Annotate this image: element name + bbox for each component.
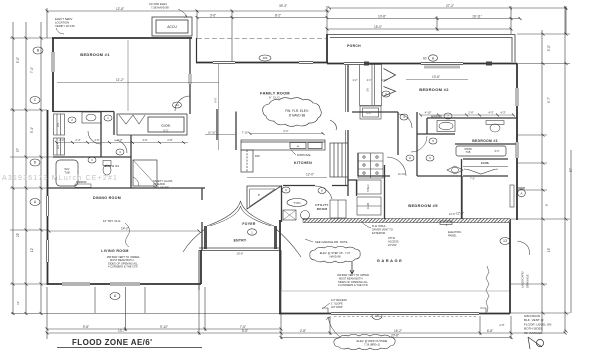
door arc bedroom2 bbox=[398, 114, 412, 128]
svg-text:A: A bbox=[520, 191, 522, 195]
svg-text:3'-0": 3'-0" bbox=[142, 138, 147, 142]
svg-text:39'-3": 39'-3" bbox=[279, 4, 287, 8]
dimension line right 3 bbox=[570, 150, 572, 313]
svg-text:L.C.: L.C. bbox=[367, 111, 372, 115]
corner pantry triangle bbox=[247, 186, 281, 209]
svg-text:4'-3": 4'-3" bbox=[500, 111, 505, 115]
svg-text:LANDSCAPE/: LANDSCAPE/ bbox=[521, 271, 525, 288]
dimension extension lines bottom bbox=[47, 250, 511, 339]
garage door dashed track bbox=[334, 316, 477, 318]
bath2 dim row bbox=[425, 111, 506, 115]
dimension line top 2 right bbox=[327, 18, 520, 20]
svg-text:15': 15' bbox=[547, 248, 551, 253]
svg-text:BEDROOM #5: BEDROOM #5 bbox=[408, 203, 438, 208]
wall utility/foyer east bbox=[281, 186, 283, 223]
svg-text:P.: P. bbox=[258, 193, 261, 197]
dimension line bottom 3 (garage) bbox=[281, 337, 511, 339]
svg-text:CLOS.: CLOS. bbox=[161, 124, 170, 128]
bedroom1 west wall window marks bbox=[48, 52, 54, 262]
svg-text:ACCESS: ACCESS bbox=[388, 239, 399, 243]
svg-text:OF GARAGE: OF GARAGE bbox=[524, 331, 542, 335]
wall west lower bbox=[47, 110, 49, 285]
dimension line bottom 1 bbox=[47, 328, 281, 330]
note elect serv bbox=[55, 17, 76, 28]
wall family east bbox=[347, 64, 349, 197]
svg-text:3: 3 bbox=[119, 150, 121, 154]
svg-text:ENCLOSURE: ENCLOSURE bbox=[153, 185, 169, 189]
TYP oval bbox=[287, 199, 307, 207]
svg-text:2'-8": 2'-8" bbox=[300, 329, 306, 333]
svg-text:12'-0": 12'-0" bbox=[306, 173, 314, 177]
svg-text:3'-6": 3'-6" bbox=[210, 14, 216, 18]
svg-text:7'-0": 7'-0" bbox=[470, 177, 475, 181]
utility door arc bbox=[315, 186, 332, 199]
kitchen counters bbox=[241, 140, 325, 172]
svg-text:60: 60 bbox=[423, 57, 427, 61]
kitchen dim line bbox=[247, 177, 327, 179]
svg-text:1/4" RECESS: 1/4" RECESS bbox=[331, 298, 347, 302]
door label oval family wall bbox=[259, 55, 271, 61]
svg-text:FIN. FLR. ELEV:: FIN. FLR. ELEV: bbox=[285, 109, 309, 113]
wall bath band mid bbox=[53, 156, 131, 158]
svg-text:12'-8": 12'-8" bbox=[116, 7, 124, 11]
svg-text:9: 9 bbox=[385, 92, 387, 96]
svg-text:12': 12' bbox=[16, 301, 20, 305]
svg-text:14'-2": 14'-2" bbox=[121, 227, 129, 231]
svg-text:7'-10": 7'-10" bbox=[242, 131, 249, 135]
note attic access bbox=[388, 236, 399, 247]
svg-text:MIRROR: MIRROR bbox=[431, 115, 442, 119]
wall hall east upper bbox=[216, 109, 218, 140]
svg-text:LIVING ROOM: LIVING ROOM bbox=[101, 249, 128, 253]
svg-text:10'-8": 10'-8" bbox=[378, 15, 386, 19]
vanity bath1 bbox=[82, 112, 101, 123]
svg-text:11'-2": 11'-2" bbox=[116, 78, 124, 82]
circled 8a utility bbox=[318, 188, 326, 194]
svg-text:5: 5 bbox=[432, 139, 434, 143]
svg-text:BATH #1: BATH #1 bbox=[105, 164, 119, 168]
svg-text:TUB: TUB bbox=[64, 171, 69, 175]
svg-text:NAVD 88: NAVD 88 bbox=[329, 255, 341, 259]
note AC pad elev bbox=[149, 2, 169, 10]
svg-text:DW: DW bbox=[255, 154, 260, 158]
svg-text:8: 8 bbox=[321, 189, 323, 193]
svg-text:9: 9 bbox=[285, 188, 287, 192]
wall garage west bbox=[279, 220, 281, 314]
bifold chevron doors bedroom2 bbox=[384, 69, 396, 97]
wall garage south bbox=[279, 313, 510, 315]
svg-text:R-11 INSUL.: R-11 INSUL. bbox=[372, 224, 387, 228]
entry threshold and stoop bbox=[199, 248, 281, 290]
wall entry left bbox=[204, 226, 207, 249]
svg-text:A31936173 MLurch CE+2#1: A31936173 MLurch CE+2#1 bbox=[2, 175, 118, 182]
interior walls bbox=[48, 38, 490, 312]
wall garage east bbox=[509, 219, 511, 314]
dimension extension lines right bbox=[511, 34, 570, 313]
dimension line bottom 2 bbox=[47, 332, 565, 334]
svg-text:DRYER VENT TO: DRYER VENT TO bbox=[372, 227, 393, 231]
circled 1 bbox=[248, 229, 257, 235]
svg-text:6: 6 bbox=[429, 156, 431, 160]
interior dim line bedroom1 bbox=[57, 82, 219, 84]
svg-text:1" SLOPE: 1" SLOPE bbox=[331, 301, 343, 305]
svg-text:5'-0": 5'-0" bbox=[16, 57, 20, 63]
svg-text:2'-2": 2'-2" bbox=[353, 79, 358, 82]
svg-text:11'-10": 11'-10" bbox=[398, 172, 406, 176]
svg-text:6'-2": 6'-2" bbox=[283, 129, 288, 133]
family hall vertical dim line bbox=[218, 64, 220, 150]
step arrow bbox=[350, 262, 354, 274]
kitchen counter dim row bbox=[250, 133, 323, 135]
wall closet band top bbox=[53, 111, 114, 113]
family top wall window marks bbox=[213, 61, 313, 64]
svg-text:2'-0": 2'-0" bbox=[59, 138, 64, 142]
porch wall door openings bbox=[344, 62, 463, 65]
wall porch left bbox=[326, 34, 328, 64]
closet stack boxes bbox=[357, 180, 381, 215]
svg-text:MOST BEAM BOTH: MOST BEAM BOTH bbox=[339, 276, 363, 280]
garage interior break line bbox=[486, 266, 489, 312]
svg-text:10'-10": 10'-10" bbox=[208, 131, 216, 135]
washer dryer bbox=[330, 200, 346, 218]
svg-text:4'-3": 4'-3" bbox=[488, 111, 493, 115]
svg-text:8'-2": 8'-2" bbox=[275, 14, 281, 18]
circled 9 kitchen bbox=[282, 187, 290, 193]
door circle A4 bbox=[173, 102, 182, 108]
window marks living south wall bbox=[62, 283, 140, 285]
wall bath band bottom bbox=[48, 187, 206, 189]
note sim drain bbox=[524, 314, 551, 335]
bedroom2 interior dim line bbox=[406, 79, 468, 81]
svg-text:-: - bbox=[298, 145, 299, 148]
svg-text:W/V: W/V bbox=[65, 167, 70, 171]
wall bedroom1 top bbox=[52, 37, 192, 39]
svg-text:6'-2": 6'-2" bbox=[163, 129, 168, 133]
shower bath1 bbox=[133, 160, 157, 186]
wall bed5 east bbox=[461, 176, 463, 219]
svg-text:LIN: LIN bbox=[367, 88, 370, 92]
svg-text:10'-6": 10'-6" bbox=[449, 212, 456, 216]
svg-text:2'-0": 2'-0" bbox=[382, 79, 387, 82]
svg-text:SIDES OF OPENING ALL: SIDES OF OPENING ALL bbox=[338, 280, 369, 284]
ACCU pad bbox=[152, 17, 192, 36]
svg-text:6'-8": 6'-8" bbox=[487, 329, 493, 333]
utility room bbox=[315, 203, 328, 211]
svg-text:C: C bbox=[34, 98, 37, 102]
svg-text:A: A bbox=[34, 200, 37, 204]
east wall window marks bbox=[516, 88, 519, 158]
svg-text:1: 1 bbox=[107, 116, 109, 120]
svg-text:27'-2": 27'-2" bbox=[446, 4, 454, 8]
svg-text:BEDROOM #1: BEDROOM #1 bbox=[80, 52, 110, 57]
wall north (porch floor line) bbox=[327, 63, 517, 65]
svg-text:20'-8": 20'-8" bbox=[391, 334, 399, 338]
interior dim line dining/living bbox=[49, 230, 199, 232]
svg-text:ROOM: ROOM bbox=[317, 207, 328, 211]
bath2 toilet bbox=[486, 121, 504, 125]
svg-text:2: 2 bbox=[71, 118, 73, 122]
hall dim row bbox=[205, 134, 236, 136]
small dims bath band bbox=[59, 138, 172, 142]
svg-text:9'-10": 9'-10" bbox=[160, 325, 168, 329]
svg-text:12': 12' bbox=[30, 248, 34, 253]
dimension line left 2 bbox=[25, 22, 27, 315]
svg-text:BEDROOM #3: BEDROOM #3 bbox=[472, 139, 497, 143]
svg-text:4 CORNERS & THE CTR.: 4 CORNERS & THE CTR. bbox=[108, 265, 138, 269]
foyer arcs bbox=[183, 201, 301, 257]
hall closet bbox=[117, 114, 187, 135]
wall bedroom1 east bbox=[189, 38, 191, 114]
wall connector bed1-family bbox=[196, 38, 198, 63]
svg-text:9' CLG.: 9' CLG. bbox=[269, 96, 281, 100]
dimension line right 2 bbox=[564, 8, 566, 332]
svg-text:PANEL: PANEL bbox=[448, 234, 457, 238]
svg-text:DINING ROOM: DINING ROOM bbox=[93, 196, 121, 200]
detail marker bottom right bbox=[528, 337, 544, 349]
dimension extension lines top bbox=[47, 6, 566, 62]
bedroom2 closet dims bbox=[353, 79, 387, 82]
svg-text:400 BAR VERT TO UPPER: 400 BAR VERT TO UPPER bbox=[337, 273, 369, 277]
svg-text:9'-7": 9'-7" bbox=[547, 97, 551, 103]
door arc bed5 bbox=[387, 157, 406, 176]
svg-text:CLOS.: CLOS. bbox=[481, 161, 490, 165]
svg-text:13'-6": 13'-6" bbox=[432, 75, 440, 79]
svg-text:12'-0": 12'-0" bbox=[456, 212, 464, 216]
wall bath west verticals bbox=[100, 112, 102, 158]
svg-text:10'-6": 10'-6" bbox=[236, 252, 243, 256]
wall living room south bbox=[48, 283, 202, 285]
closet grid bed5 bbox=[358, 153, 383, 178]
svg-text:SEE GARAGE DR. NOTE: SEE GARAGE DR. NOTE bbox=[315, 240, 348, 244]
svg-text:100: 100 bbox=[263, 56, 268, 60]
svg-text:8' NAVD 88: 8' NAVD 88 bbox=[289, 114, 306, 118]
svg-text:7'-4": 7'-4" bbox=[30, 67, 34, 73]
note 400 bar vert bbox=[337, 273, 369, 287]
svg-text:13'-7": 13'-7" bbox=[118, 329, 126, 333]
wall bed5 top bbox=[358, 175, 390, 177]
dimension line bottom 0 bbox=[11, 313, 281, 315]
svg-text:3/4" DRIP: 3/4" DRIP bbox=[331, 305, 343, 309]
dashed roof line bbox=[197, 38, 327, 40]
east wall cabinet rect bbox=[510, 185, 514, 207]
cloud elev step up bbox=[310, 246, 360, 262]
closet bifold doors bbox=[119, 115, 145, 124]
svg-text:4'-10": 4'-10" bbox=[425, 111, 432, 115]
svg-text:SHELF: SHELF bbox=[367, 184, 370, 192]
wall east bbox=[516, 64, 518, 221]
section marker A east bbox=[518, 189, 526, 197]
svg-text:ACCU: ACCU bbox=[167, 25, 177, 29]
circled numbers mid bbox=[382, 91, 452, 161]
door break bedroom1 east bbox=[189, 74, 192, 84]
note recess bbox=[331, 298, 347, 309]
porch outline bbox=[327, 35, 515, 63]
svg-text:A4: A4 bbox=[175, 103, 179, 107]
wall living/entry west bbox=[200, 250, 202, 284]
svg-text:EXTERIOR: EXTERIOR bbox=[372, 231, 385, 235]
dimension line right 1 bbox=[541, 30, 543, 332]
svg-text:4'-1": 4'-1" bbox=[367, 79, 372, 82]
circled door numbers left bbox=[68, 115, 124, 163]
svg-text:8: 8 bbox=[409, 156, 411, 160]
svg-text:5'-4": 5'-4" bbox=[30, 127, 34, 133]
water heater bbox=[283, 210, 296, 220]
svg-text:12' TRY CLG.: 12' TRY CLG. bbox=[103, 219, 122, 223]
wall bed5 west bbox=[357, 153, 359, 176]
bath2 walls bbox=[417, 112, 517, 219]
pantry bbox=[330, 143, 348, 177]
svg-text:2'-8": 2'-8" bbox=[499, 323, 504, 327]
svg-text:LIN: LIN bbox=[56, 145, 60, 149]
grid bubble B bbox=[30, 47, 510, 320]
svg-text:ELEV. @ STEP UP - 7.27: ELEV. @ STEP UP - 7.27 bbox=[320, 251, 351, 255]
safety glass note bbox=[153, 179, 173, 189]
wall utility top bbox=[283, 185, 348, 187]
svg-text:TYP1: TYP1 bbox=[293, 201, 301, 205]
svg-text:5'-0": 5'-0" bbox=[547, 45, 551, 51]
garage interior line bbox=[281, 290, 509, 292]
wall bed5 closet west bbox=[384, 165, 386, 219]
svg-text:LIN: LIN bbox=[56, 123, 60, 127]
shower tub bed3 bbox=[456, 146, 506, 156]
svg-text:57': 57' bbox=[16, 148, 20, 153]
wall hall bath2 bbox=[352, 111, 398, 113]
svg-text:3'-0": 3'-0" bbox=[94, 138, 99, 142]
sliding door gray band bbox=[424, 66, 460, 69]
garage door opening bbox=[331, 312, 479, 315]
dim extension bedroom1 center bbox=[127, 40, 129, 111]
svg-text:FLOOD ZONE AE/6': FLOOD ZONE AE/6' bbox=[72, 338, 152, 347]
svg-text:VERIFY W/ FPL: VERIFY W/ FPL bbox=[55, 24, 76, 28]
svg-text:ATTIC: ATTIC bbox=[388, 236, 395, 240]
svg-text:ELEV. @ DRIP OUTSIDE: ELEV. @ DRIP OUTSIDE bbox=[357, 339, 388, 343]
svg-text:FOYER: FOYER bbox=[242, 222, 255, 226]
svg-text:9': 9' bbox=[545, 203, 549, 206]
svg-text:5'-5": 5'-5" bbox=[242, 329, 248, 333]
svg-text:16'-2": 16'-2" bbox=[394, 329, 402, 333]
door arcs hall bbox=[88, 96, 190, 153]
svg-text:57': 57' bbox=[569, 168, 573, 173]
svg-text:GARAGE: GARAGE bbox=[377, 258, 404, 263]
dimension line left 3 bbox=[40, 22, 42, 315]
svg-text:B: B bbox=[37, 49, 40, 53]
hatched firewall garage/house bbox=[303, 219, 510, 223]
svg-text:2'-0": 2'-0" bbox=[468, 111, 473, 115]
room label family bbox=[260, 92, 290, 100]
svg-text:25': 25' bbox=[16, 233, 20, 238]
toilet bath1 bbox=[103, 161, 111, 166]
cloud elev drip outside bbox=[334, 334, 395, 349]
svg-text:6'-0": 6'-0" bbox=[495, 150, 500, 153]
svg-text:7.26 (BFE+1): 7.26 (BFE+1) bbox=[364, 343, 380, 347]
svg-text:4-CORNERS & THE CTR.: 4-CORNERS & THE CTR. bbox=[338, 283, 369, 287]
svg-text:9'-0": 9'-0" bbox=[214, 97, 218, 102]
svg-text:1: 1 bbox=[251, 230, 253, 234]
dimension line top 2 left bbox=[47, 10, 330, 12]
svg-text:KITCHEN: KITCHEN bbox=[294, 161, 312, 165]
svg-text:2'-8": 2'-8" bbox=[167, 138, 172, 142]
cloud fin flr elev bbox=[263, 98, 337, 130]
wall bedroom1/west upper bbox=[52, 38, 54, 112]
garage door recess marks bbox=[322, 308, 486, 314]
wall dining/foyer east bbox=[201, 188, 203, 250]
note r11 insul bbox=[372, 224, 393, 235]
dimension line top 3 (porch) bbox=[327, 28, 511, 30]
svg-text:DRAINAGE: DRAINAGE bbox=[526, 274, 530, 288]
svg-text:13: 13 bbox=[503, 239, 507, 243]
svg-text:D: D bbox=[34, 161, 37, 165]
closet V door wide bbox=[464, 169, 498, 174]
svg-text:PORCH: PORCH bbox=[347, 44, 361, 48]
dimension line top 1 bbox=[330, 7, 566, 9]
wall entry right bbox=[274, 226, 277, 249]
svg-text:CLOS: CLOS bbox=[367, 202, 370, 209]
door arc bath2 bbox=[411, 136, 427, 152]
door diamond bbox=[447, 166, 463, 174]
wv tub bbox=[56, 160, 78, 186]
dimension extension lines left bbox=[10, 38, 53, 284]
exterior walls bbox=[48, 34, 518, 314]
svg-text:DISPOSAL: DISPOSAL bbox=[297, 153, 311, 157]
svg-text:ELECTRIC: ELECTRIC bbox=[448, 230, 461, 234]
svg-text:2'-4": 2'-4" bbox=[75, 138, 80, 142]
wall hall/kitchen west bbox=[235, 112, 237, 151]
svg-text:16'-11": 16'-11" bbox=[472, 15, 482, 19]
svg-text:A: A bbox=[114, 294, 117, 298]
note bar vert living bbox=[107, 255, 140, 269]
svg-text:BEDROOM #2: BEDROOM #2 bbox=[419, 87, 449, 92]
porch wall posts bbox=[364, 62, 492, 66]
garage side door arc bbox=[518, 241, 530, 255]
closet band bedroom1: shelves bbox=[54, 114, 65, 155]
svg-text:3: 3 bbox=[91, 158, 93, 162]
wall family/kitchen top bbox=[196, 62, 328, 64]
svg-text:22"x54": 22"x54" bbox=[388, 243, 397, 247]
svg-text:ENTRY: ENTRY bbox=[234, 239, 247, 243]
svg-text:5'-0": 5'-0" bbox=[117, 138, 122, 142]
svg-text:7.58 NAVD 88: 7.58 NAVD 88 bbox=[151, 6, 169, 10]
dimension line top sub bbox=[197, 17, 327, 19]
wall utility step bbox=[348, 180, 357, 196]
svg-text:TUB: TUB bbox=[466, 151, 471, 154]
svg-text:15'-0": 15'-0" bbox=[374, 25, 382, 29]
bedroom2 closets LIN bbox=[360, 65, 382, 120]
svg-text:9'-8": 9'-8" bbox=[83, 325, 89, 329]
electric panel bbox=[448, 230, 461, 238]
dimension line left 1 bbox=[12, 22, 14, 315]
